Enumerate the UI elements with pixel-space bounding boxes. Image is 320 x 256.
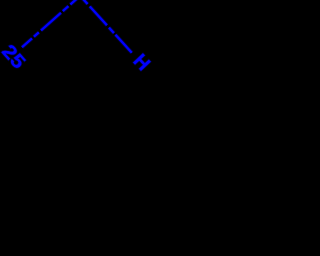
svg-text:H: H xyxy=(129,50,155,75)
